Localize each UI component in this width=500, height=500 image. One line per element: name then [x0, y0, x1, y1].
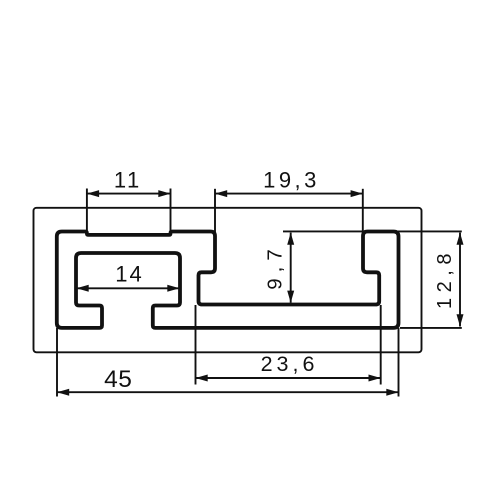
svg-text:14: 14	[115, 262, 143, 287]
svg-text:11: 11	[114, 167, 142, 192]
svg-text:9,7: 9,7	[264, 243, 287, 290]
svg-text:12,8: 12,8	[434, 248, 456, 309]
svg-text:45: 45	[104, 366, 132, 393]
svg-text:23,6: 23,6	[261, 352, 319, 376]
svg-text:19,3: 19,3	[263, 167, 320, 192]
